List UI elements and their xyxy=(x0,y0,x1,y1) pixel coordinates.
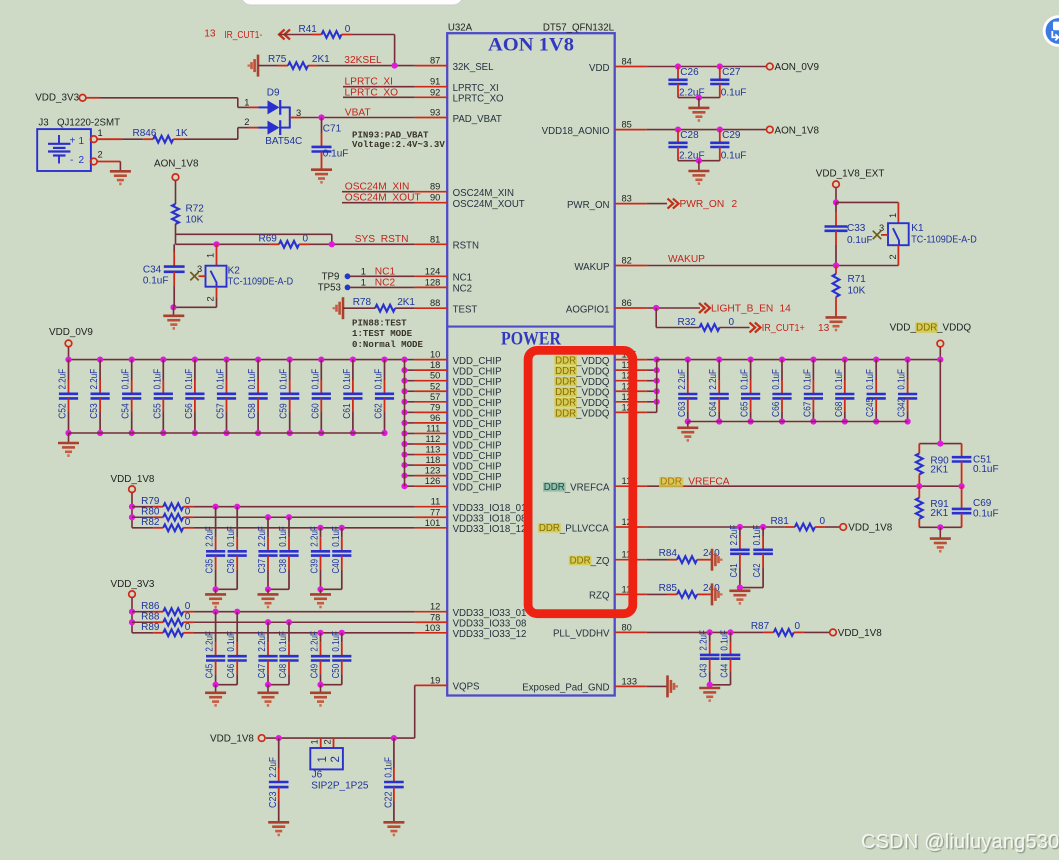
svg-text:DDR: DDR xyxy=(660,477,682,488)
svg-text:2.2uF: 2.2uF xyxy=(89,369,100,390)
svg-text:0.1uF: 0.1uF xyxy=(973,464,999,475)
svg-text:0.1uF: 0.1uF xyxy=(226,631,237,652)
svg-text:VDD_CHIP: VDD_CHIP xyxy=(453,461,502,472)
svg-text:+: + xyxy=(70,136,76,147)
svg-text:C33: C33 xyxy=(847,223,866,234)
svg-text:_VDDQ: _VDDQ xyxy=(575,356,610,367)
svg-text:93: 93 xyxy=(430,108,440,118)
svg-text:LPRTC_XI: LPRTC_XI xyxy=(453,83,499,94)
svg-text:R87: R87 xyxy=(751,621,770,632)
svg-text:R82: R82 xyxy=(141,517,160,528)
svg-text:J3: J3 xyxy=(38,118,48,129)
svg-text:VDD_1V8_EXT: VDD_1V8_EXT xyxy=(816,169,885,180)
svg-text:32K_SEL: 32K_SEL xyxy=(453,62,495,73)
svg-text:80: 80 xyxy=(622,622,632,632)
svg-text:Voltage:2.4V~3.3V: Voltage:2.4V~3.3V xyxy=(352,139,445,150)
svg-text:AOGPIO1: AOGPIO1 xyxy=(566,304,610,315)
svg-text:_VDDQ: _VDDQ xyxy=(575,409,610,420)
svg-text:J6: J6 xyxy=(312,769,323,780)
svg-text:0: 0 xyxy=(345,24,351,35)
svg-text:SYS_RSTN: SYS_RSTN xyxy=(355,234,409,245)
svg-text:0.1uF: 0.1uF xyxy=(121,369,132,390)
svg-text:2.2uF: 2.2uF xyxy=(257,631,268,652)
svg-text:C41: C41 xyxy=(729,563,740,577)
svg-text:0.1uF: 0.1uF xyxy=(226,526,237,547)
svg-text:C68: C68 xyxy=(834,401,845,417)
svg-text:TC-1109DE-A-D: TC-1109DE-A-D xyxy=(228,276,294,287)
svg-text:92: 92 xyxy=(430,87,440,97)
svg-text:0.1uF: 0.1uF xyxy=(383,757,394,778)
svg-text:2.2uF: 2.2uF xyxy=(205,631,216,652)
svg-text:_VREFCA: _VREFCA xyxy=(682,477,730,488)
svg-text:C45: C45 xyxy=(205,664,216,679)
svg-text:96: 96 xyxy=(430,413,440,423)
svg-text:TEST: TEST xyxy=(453,305,478,316)
svg-text:78: 78 xyxy=(430,612,440,622)
svg-text:AON_1V8: AON_1V8 xyxy=(154,159,199,170)
svg-text:VDD_: VDD_ xyxy=(890,322,917,333)
svg-text:NC1: NC1 xyxy=(453,273,472,284)
svg-text:AON 1V8: AON 1V8 xyxy=(488,35,574,55)
svg-text:0.1uF: 0.1uF xyxy=(143,276,169,287)
svg-text:LIGHT_B_EN: LIGHT_B_EN xyxy=(711,304,773,315)
svg-text:VDD33_IO33_12: VDD33_IO33_12 xyxy=(453,629,527,640)
svg-text:C52: C52 xyxy=(58,403,69,419)
svg-text:_VDDQ: _VDDQ xyxy=(936,322,971,333)
svg-text:C245: C245 xyxy=(865,398,876,417)
svg-text:R78: R78 xyxy=(353,297,372,308)
svg-text:0.1uF: 0.1uF xyxy=(834,369,845,390)
svg-text:2.2uF: 2.2uF xyxy=(708,369,719,390)
svg-text:0: 0 xyxy=(185,517,191,528)
svg-text:TP9: TP9 xyxy=(322,271,340,282)
svg-text:0.1uF: 0.1uF xyxy=(342,369,353,390)
svg-text:C23: C23 xyxy=(268,791,279,808)
svg-text:R84: R84 xyxy=(659,548,678,559)
svg-text:0: 0 xyxy=(185,611,191,622)
svg-text:_VDDQ: _VDDQ xyxy=(575,366,610,377)
svg-text:2: 2 xyxy=(323,739,333,744)
svg-text:32KSEL: 32KSEL xyxy=(344,55,382,66)
svg-text:128: 128 xyxy=(425,277,441,287)
svg-text:RSTN: RSTN xyxy=(453,241,479,252)
svg-text:R86: R86 xyxy=(141,601,160,612)
svg-text:1:TEST MODE: 1:TEST MODE xyxy=(352,328,413,339)
svg-text:C42: C42 xyxy=(752,563,763,577)
svg-text:PAD_VBAT: PAD_VBAT xyxy=(453,114,502,125)
svg-text:C54: C54 xyxy=(121,403,132,419)
svg-text:C35: C35 xyxy=(205,559,216,574)
svg-text:19: 19 xyxy=(430,675,440,685)
svg-text:Exposed_Pad_GND: Exposed_Pad_GND xyxy=(522,683,609,694)
svg-text:113: 113 xyxy=(425,445,440,455)
svg-text:DDR: DDR xyxy=(555,408,576,419)
svg-text:DDR: DDR xyxy=(539,523,560,534)
svg-text:0.1uF: 0.1uF xyxy=(374,369,385,390)
svg-text:LPRTC_XO: LPRTC_XO xyxy=(345,87,399,98)
svg-text:2.2uF: 2.2uF xyxy=(310,526,321,547)
svg-text:QJ1220-2SMT: QJ1220-2SMT xyxy=(57,118,120,129)
svg-text:C26: C26 xyxy=(680,67,699,78)
svg-text:VDD33_IO18_12: VDD33_IO18_12 xyxy=(453,524,527,535)
svg-text:_ZQ: _ZQ xyxy=(590,556,610,567)
svg-text:BAT54C: BAT54C xyxy=(265,136,302,147)
svg-text:VDD_CHIP: VDD_CHIP xyxy=(453,430,502,441)
svg-text:1: 1 xyxy=(361,266,366,276)
svg-text:C65: C65 xyxy=(740,401,751,417)
svg-text:52: 52 xyxy=(430,381,440,391)
svg-text:89: 89 xyxy=(430,182,440,192)
svg-text:C55: C55 xyxy=(152,403,163,419)
svg-text:0.1uF: 0.1uF xyxy=(279,369,290,390)
svg-text:C60: C60 xyxy=(310,403,321,419)
svg-text:C71: C71 xyxy=(323,123,342,134)
svg-text:VDD_3V3: VDD_3V3 xyxy=(111,579,155,590)
svg-text:0.1uF: 0.1uF xyxy=(331,526,342,547)
svg-text:LPRTC_XI: LPRTC_XI xyxy=(345,77,394,88)
svg-text:101: 101 xyxy=(425,518,441,528)
svg-text:VDD_1V8: VDD_1V8 xyxy=(210,734,254,745)
svg-text:2.2uF: 2.2uF xyxy=(257,526,268,547)
svg-text:PWR_ON: PWR_ON xyxy=(680,199,725,210)
svg-text:0: 0 xyxy=(729,317,735,328)
svg-text:VDD_CHIP: VDD_CHIP xyxy=(453,366,502,377)
svg-text:R89: R89 xyxy=(141,622,160,633)
svg-text:0.1uF: 0.1uF xyxy=(331,631,342,652)
svg-text:C50: C50 xyxy=(331,664,342,679)
svg-text:81: 81 xyxy=(430,234,440,244)
svg-text:VDD_3V3: VDD_3V3 xyxy=(35,93,79,104)
svg-text:VDD_1V8: VDD_1V8 xyxy=(838,628,882,639)
svg-text:2K1: 2K1 xyxy=(312,54,330,65)
svg-text:_VDDQ: _VDDQ xyxy=(575,398,610,409)
svg-text:PLL_VDDHV: PLL_VDDHV xyxy=(553,629,610,640)
svg-text:84: 84 xyxy=(622,57,632,67)
svg-text:10: 10 xyxy=(430,350,440,360)
svg-text:111: 111 xyxy=(426,423,440,433)
svg-text:2: 2 xyxy=(888,254,898,259)
svg-text:2.2uF: 2.2uF xyxy=(699,630,710,651)
svg-text:1: 1 xyxy=(206,253,216,258)
svg-text:VDD_1V8: VDD_1V8 xyxy=(848,523,892,534)
svg-text:0.1uF: 0.1uF xyxy=(721,87,747,98)
svg-text:DDR: DDR xyxy=(555,398,576,409)
svg-text:VDD: VDD xyxy=(589,63,609,74)
svg-text:VDD33_IO33_01: VDD33_IO33_01 xyxy=(453,608,527,619)
svg-text:82: 82 xyxy=(622,256,632,266)
svg-text:C38: C38 xyxy=(278,559,289,574)
svg-text:C34: C34 xyxy=(143,264,162,275)
svg-text:_PLLVCCA: _PLLVCCA xyxy=(559,523,609,534)
svg-text:WAKUP: WAKUP xyxy=(668,254,705,265)
svg-text:2.2uF: 2.2uF xyxy=(205,526,216,547)
svg-text:AON_0V9: AON_0V9 xyxy=(775,62,820,73)
svg-text:77: 77 xyxy=(430,507,440,517)
svg-text:C28: C28 xyxy=(680,130,699,141)
svg-text:VDD_CHIP: VDD_CHIP xyxy=(453,356,502,367)
svg-text:CSDN @liuluyang530: CSDN @liuluyang530 xyxy=(861,831,1059,853)
svg-text:2.2uF: 2.2uF xyxy=(677,369,688,390)
svg-text:TP53: TP53 xyxy=(318,282,341,293)
svg-text:R79: R79 xyxy=(141,496,160,507)
svg-text:AON_1V8: AON_1V8 xyxy=(775,125,820,136)
svg-text:C39: C39 xyxy=(310,559,321,574)
svg-text:VDD33_IO18_08: VDD33_IO18_08 xyxy=(453,514,527,525)
svg-text:R69: R69 xyxy=(259,233,278,244)
svg-text:VBAT: VBAT xyxy=(345,108,371,119)
svg-text:C48: C48 xyxy=(278,664,289,679)
svg-text:C342: C342 xyxy=(897,398,908,417)
svg-text:C61: C61 xyxy=(342,403,353,419)
svg-text:C49: C49 xyxy=(310,664,321,679)
svg-text:2.2uF: 2.2uF xyxy=(58,369,69,390)
svg-text:0:Normal MODE: 0:Normal MODE xyxy=(352,339,423,350)
svg-text:13: 13 xyxy=(818,323,830,334)
svg-text:SIP2P_1P25: SIP2P_1P25 xyxy=(311,781,369,792)
svg-text:C43: C43 xyxy=(699,663,710,677)
svg-text:2: 2 xyxy=(206,296,216,301)
svg-text:R80: R80 xyxy=(141,506,160,517)
svg-text:PIN88:TEST: PIN88:TEST xyxy=(352,317,407,328)
svg-text:0.1uF: 0.1uF xyxy=(847,235,873,246)
svg-text:C57: C57 xyxy=(216,403,227,419)
svg-text:0.1uF: 0.1uF xyxy=(865,369,876,390)
svg-text:1: 1 xyxy=(79,136,85,147)
svg-text:0.1uF: 0.1uF xyxy=(278,526,289,547)
svg-text:R85: R85 xyxy=(659,583,678,594)
svg-text:R88: R88 xyxy=(141,611,160,622)
svg-text:D9: D9 xyxy=(267,87,280,98)
svg-text:-: - xyxy=(70,155,73,166)
svg-text:C67: C67 xyxy=(802,401,813,417)
svg-text:90: 90 xyxy=(430,193,440,203)
svg-text:VDD_1V8: VDD_1V8 xyxy=(111,474,155,485)
svg-text:83: 83 xyxy=(622,194,632,204)
svg-text:C47: C47 xyxy=(257,664,268,679)
svg-text:C44: C44 xyxy=(720,663,731,677)
svg-text:2: 2 xyxy=(244,117,249,127)
svg-text:0.1uF: 0.1uF xyxy=(973,508,999,519)
svg-text:R71: R71 xyxy=(848,274,867,285)
svg-text:0.1uF: 0.1uF xyxy=(740,369,751,390)
svg-text:1: 1 xyxy=(244,97,249,107)
svg-text:0.1uF: 0.1uF xyxy=(752,525,763,546)
svg-text:88: 88 xyxy=(430,298,440,308)
svg-text:2.2uF: 2.2uF xyxy=(268,757,279,778)
svg-text:126: 126 xyxy=(425,476,441,486)
svg-text:2K1: 2K1 xyxy=(930,508,948,519)
svg-text:133: 133 xyxy=(622,676,638,686)
svg-text:VDD_CHIP: VDD_CHIP xyxy=(453,483,502,494)
svg-text:0.1uF: 0.1uF xyxy=(720,630,731,651)
svg-text:VDD_CHIP: VDD_CHIP xyxy=(453,440,502,451)
svg-text:0.1uF: 0.1uF xyxy=(152,369,163,390)
svg-text:0.1uF: 0.1uF xyxy=(323,149,349,160)
svg-text:C29: C29 xyxy=(722,130,741,141)
svg-text:OSC24M_XOUT: OSC24M_XOUT xyxy=(345,193,421,204)
svg-text:1: 1 xyxy=(310,739,320,744)
svg-text:1: 1 xyxy=(361,277,366,287)
svg-text:LPRTC_XO: LPRTC_XO xyxy=(453,94,504,105)
svg-text:0.1uF: 0.1uF xyxy=(247,369,258,390)
svg-text:14: 14 xyxy=(780,304,792,315)
svg-text:_VDDQ: _VDDQ xyxy=(575,377,610,388)
svg-text:91: 91 xyxy=(430,77,440,87)
svg-text:1: 1 xyxy=(98,128,103,138)
svg-text:R41: R41 xyxy=(299,24,318,35)
svg-text:U32A: U32A xyxy=(448,22,473,33)
svg-text:50: 50 xyxy=(430,371,440,381)
svg-text:86: 86 xyxy=(622,298,632,308)
svg-text:K2: K2 xyxy=(228,265,241,276)
svg-text:WAKUP: WAKUP xyxy=(574,262,609,273)
svg-text:118: 118 xyxy=(425,455,440,465)
svg-text:C22: C22 xyxy=(383,791,394,808)
svg-text:VDD_CHIP: VDD_CHIP xyxy=(453,472,502,483)
svg-text:C69: C69 xyxy=(973,498,992,509)
svg-text:79: 79 xyxy=(430,402,440,412)
svg-text:OSC24M_XIN: OSC24M_XIN xyxy=(453,188,514,199)
svg-text:C63: C63 xyxy=(677,401,688,417)
svg-text:K1: K1 xyxy=(911,223,924,234)
svg-text:2K1: 2K1 xyxy=(930,464,948,475)
svg-text:R32: R32 xyxy=(678,317,697,328)
svg-text:DDR: DDR xyxy=(570,556,591,567)
svg-text:VDD_CHIP: VDD_CHIP xyxy=(453,388,502,399)
svg-text:0: 0 xyxy=(185,506,191,517)
svg-text:85: 85 xyxy=(622,120,632,130)
svg-text:_VDDQ: _VDDQ xyxy=(575,388,610,399)
svg-text:0.1uF: 0.1uF xyxy=(771,369,782,390)
svg-text:VDD_CHIP: VDD_CHIP xyxy=(453,398,502,409)
svg-text:DDR: DDR xyxy=(555,356,576,367)
svg-text:C58: C58 xyxy=(247,403,258,419)
svg-text:C64: C64 xyxy=(708,401,719,417)
svg-text:10K: 10K xyxy=(186,215,204,226)
svg-text:VDD_CHIP: VDD_CHIP xyxy=(453,409,502,420)
svg-text:0.1uF: 0.1uF xyxy=(216,369,227,390)
svg-text:C27: C27 xyxy=(722,67,741,78)
svg-text:VDD_0V9: VDD_0V9 xyxy=(49,327,93,338)
svg-text:0: 0 xyxy=(303,233,309,244)
svg-text:DDR: DDR xyxy=(544,482,565,493)
svg-text:VDD33_IO33_08: VDD33_IO33_08 xyxy=(453,619,527,630)
svg-text:NC2: NC2 xyxy=(453,284,472,295)
svg-text:0: 0 xyxy=(795,621,801,632)
svg-text:TC-1109DE-A-D: TC-1109DE-A-D xyxy=(911,235,977,246)
svg-text:DDR: DDR xyxy=(555,377,576,388)
svg-text:124: 124 xyxy=(425,266,441,276)
svg-text:IR_CUT1+: IR_CUT1+ xyxy=(762,323,805,334)
svg-text:87: 87 xyxy=(430,56,440,66)
svg-text:OSC24M_XIN: OSC24M_XIN xyxy=(345,182,410,193)
svg-text:2: 2 xyxy=(98,150,103,160)
svg-text:1K: 1K xyxy=(176,128,189,139)
svg-text:1: 1 xyxy=(317,756,329,762)
svg-text:VQPS: VQPS xyxy=(453,682,480,693)
svg-text:DDR: DDR xyxy=(555,366,576,377)
svg-text:2: 2 xyxy=(330,756,342,762)
svg-text:NC2: NC2 xyxy=(375,277,396,288)
svg-text:DDR: DDR xyxy=(555,387,576,398)
svg-text:0.1uF: 0.1uF xyxy=(897,369,908,390)
svg-text:VDD33_IO18_01: VDD33_IO18_01 xyxy=(453,503,527,514)
svg-text:C36: C36 xyxy=(226,559,237,574)
svg-text:OSC24M_XOUT: OSC24M_XOUT xyxy=(453,199,525,210)
svg-text:13: 13 xyxy=(204,28,216,39)
svg-text:C59: C59 xyxy=(279,403,290,419)
svg-text:10K: 10K xyxy=(848,285,866,296)
svg-text:18: 18 xyxy=(430,360,440,370)
svg-text:2: 2 xyxy=(732,199,738,210)
svg-text:2: 2 xyxy=(79,155,85,166)
svg-text:123: 123 xyxy=(425,466,441,476)
svg-text:11: 11 xyxy=(431,497,441,507)
svg-text:NC1: NC1 xyxy=(375,266,396,277)
svg-text:0.1uF: 0.1uF xyxy=(310,369,321,390)
svg-text:C66: C66 xyxy=(771,401,782,417)
svg-text:VDD18_AONIO: VDD18_AONIO xyxy=(542,126,610,137)
svg-text:0: 0 xyxy=(185,601,191,612)
svg-text:112: 112 xyxy=(425,434,440,444)
svg-text:C53: C53 xyxy=(89,403,100,419)
svg-text:C56: C56 xyxy=(184,403,195,419)
svg-text:VDD_CHIP: VDD_CHIP xyxy=(453,377,502,388)
svg-text:0.1uF: 0.1uF xyxy=(278,631,289,652)
svg-text:C46: C46 xyxy=(226,664,237,679)
svg-text:VDD_CHIP: VDD_CHIP xyxy=(453,451,502,462)
svg-text:DDR: DDR xyxy=(916,322,937,333)
svg-text:_VREFCA: _VREFCA xyxy=(564,483,610,494)
svg-text:1: 1 xyxy=(888,213,898,218)
svg-text:57: 57 xyxy=(430,392,440,402)
svg-text:DT57_QFN132L: DT57_QFN132L xyxy=(543,22,615,33)
svg-text:IR_CUT1-: IR_CUT1- xyxy=(224,30,262,41)
svg-text:2.2uF: 2.2uF xyxy=(310,631,321,652)
svg-text:0: 0 xyxy=(820,516,826,527)
svg-text:0: 0 xyxy=(185,496,191,507)
svg-text:2.2uF: 2.2uF xyxy=(729,525,740,546)
svg-text:PWR_ON: PWR_ON xyxy=(567,200,610,211)
svg-text:12: 12 xyxy=(430,602,440,612)
svg-text:R81: R81 xyxy=(770,516,789,527)
svg-text:VDD_CHIP: VDD_CHIP xyxy=(453,419,502,430)
svg-text:C40: C40 xyxy=(331,559,342,574)
svg-text:0.1uF: 0.1uF xyxy=(721,150,747,161)
svg-text:C37: C37 xyxy=(257,559,268,574)
svg-text:0: 0 xyxy=(185,622,191,633)
svg-text:2K1: 2K1 xyxy=(397,297,415,308)
svg-text:R75: R75 xyxy=(268,54,287,65)
svg-text:0.1uF: 0.1uF xyxy=(184,369,195,390)
svg-text:103: 103 xyxy=(425,623,441,633)
svg-text:R72: R72 xyxy=(186,204,205,215)
svg-text:RZQ: RZQ xyxy=(589,591,610,602)
svg-text:C62: C62 xyxy=(374,403,385,419)
svg-text:0.1uF: 0.1uF xyxy=(802,369,813,390)
